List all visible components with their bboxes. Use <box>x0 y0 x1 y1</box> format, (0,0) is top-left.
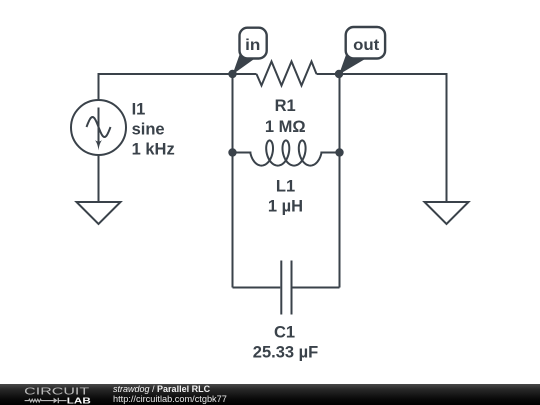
ground left <box>77 202 121 224</box>
current source arrowhead <box>95 140 102 150</box>
junction dot out-node <box>335 70 343 78</box>
wire capacitor right <box>293 287 340 289</box>
junction dot inductor-right <box>335 148 343 156</box>
junction dot inductor-left <box>228 148 236 156</box>
resistor R1 <box>257 62 317 86</box>
flag out box <box>346 27 385 59</box>
wire resistor to out-node <box>317 73 340 75</box>
wire source to ground left <box>98 155 100 201</box>
flag in box <box>240 28 267 59</box>
capacitor C1 right plate <box>291 261 293 315</box>
wire top-left horizontal <box>99 74 233 75</box>
footer text line 2 <box>113 394 227 404</box>
svg-text:25.33 µF: 25.33 µF <box>253 344 318 362</box>
svg-text:out: out <box>353 37 379 54</box>
wire capacitor left <box>233 287 281 289</box>
wire mid-left vertical <box>232 74 234 288</box>
svg-text:L1: L1 <box>276 178 295 196</box>
footer bar <box>0 384 540 405</box>
ground right <box>425 202 469 224</box>
svg-text:LAB: LAB <box>67 396 91 405</box>
current source I1 circle <box>71 100 126 155</box>
current source sine wave <box>87 117 111 137</box>
wire left vertical to source <box>98 74 100 100</box>
svg-text:1 µH: 1 µH <box>268 198 303 216</box>
footer logo <box>0 380 110 405</box>
wire mid-right vertical <box>339 74 341 288</box>
footer text line 1 <box>113 384 210 394</box>
svg-text:sine: sine <box>132 121 165 139</box>
wire out-node to right corner <box>339 74 447 201</box>
svg-text:R1: R1 <box>275 97 296 115</box>
inductor L1 coil <box>250 140 321 165</box>
wire in-node to resistor <box>233 73 257 75</box>
wire inductor right stub <box>321 152 339 155</box>
svg-text:I1: I1 <box>132 100 146 118</box>
junction dot in-node <box>228 70 236 78</box>
flag in tail <box>233 52 255 75</box>
svg-text:1 kHz: 1 kHz <box>132 141 175 159</box>
flag out tail <box>339 52 366 75</box>
current source arrow shaft <box>98 108 100 145</box>
wire inductor left stub <box>233 152 251 155</box>
svg-text:1 MΩ: 1 MΩ <box>265 118 306 136</box>
capacitor C1 left plate <box>280 261 282 315</box>
svg-text:in: in <box>245 37 260 54</box>
svg-text:C1: C1 <box>274 323 295 341</box>
